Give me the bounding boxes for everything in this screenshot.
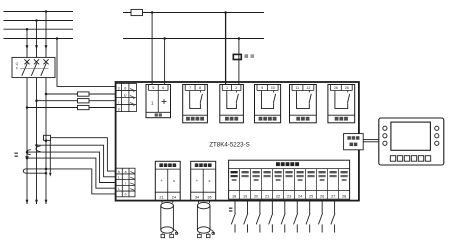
svg-text:5: 5 — [152, 86, 154, 90]
output contact K6 — [294, 201, 298, 233]
wire phase B drop — [36, 21, 38, 58]
svg-text:+: + — [160, 178, 163, 183]
arrow feeder C — [45, 200, 48, 204]
svg-text:s: s — [208, 178, 210, 183]
wire comm link — [363, 139, 379, 141]
CT hook TA3 — [27, 150, 31, 155]
svg-text:20: 20 — [254, 195, 258, 199]
svg-text:a: a — [125, 170, 127, 174]
svg-text:27: 27 — [331, 195, 335, 199]
bus line L3 — [4, 28, 74, 30]
bus line N — [4, 38, 74, 40]
relay block B6 — [328, 85, 355, 123]
bus line L1 — [4, 11, 74, 13]
wire phase C feeder — [45, 78, 47, 204]
wire drop c2 — [164, 39, 166, 85]
HMI panel — [379, 118, 444, 165]
wire w5 — [45, 168, 48, 171]
wire phase C drop — [45, 12, 47, 58]
arrow feeder A — [26, 200, 29, 204]
svg-text:L: L — [118, 176, 120, 180]
svg-text:18: 18 — [232, 195, 236, 199]
svg-text:s: s — [173, 178, 175, 183]
arrow phase C — [45, 45, 48, 49]
fuse FU4 — [131, 9, 143, 15]
svg-text:23: 23 — [287, 195, 291, 199]
svg-text:19: 19 — [243, 195, 247, 199]
control line A — [123, 12, 264, 14]
svg-text:21: 21 — [159, 196, 163, 200]
module block MA — [155, 161, 180, 200]
svg-text:3: 3 — [118, 86, 120, 90]
svg-text:10: 10 — [271, 86, 275, 90]
svg-text:+: + — [196, 178, 199, 183]
terminal grid TL — [116, 83, 137, 111]
svg-text:12: 12 — [306, 86, 310, 90]
svg-text:2: 2 — [235, 86, 237, 90]
svg-text:6: 6 — [124, 86, 126, 90]
svg-text:28: 28 — [342, 195, 346, 199]
CT loop TA4 — [23, 169, 46, 173]
wire w1 arrow lead — [49, 140, 51, 172]
svg-text:L: L — [118, 187, 120, 191]
svg-text:26: 26 — [320, 195, 324, 199]
capacitor can at x=167.1 — [161, 201, 178, 238]
output contact K1 — [231, 201, 235, 233]
wire w3 — [26, 151, 29, 154]
wire drop c1 — [151, 13, 153, 85]
arrow phase A — [26, 45, 29, 49]
output contact K7 — [306, 201, 310, 233]
capacitor can at x=203.7 — [197, 201, 214, 238]
fuse FU1 tap phase C — [46, 93, 78, 95]
svg-text:26: 26 — [334, 86, 338, 90]
CT hook TA2 — [36, 146, 41, 152]
svg-text:21: 21 — [265, 195, 269, 199]
wire drop c4 — [238, 39, 240, 85]
svg-text:b: b — [125, 193, 127, 197]
svg-text:b: b — [118, 170, 120, 174]
svg-text:34: 34 — [195, 196, 199, 200]
relay block B5 — [290, 85, 317, 123]
module block MB — [191, 161, 216, 200]
relay block B3 — [220, 85, 244, 123]
terminal strip — [229, 160, 350, 199]
wire w4 — [25, 156, 29, 160]
svg-text:9: 9 — [261, 86, 263, 90]
svg-text:26: 26 — [345, 86, 349, 90]
arrow feeder B — [35, 200, 38, 204]
wire phase A drop — [26, 29, 28, 57]
wire phase A feeder — [26, 78, 28, 204]
fuse FU3 tap phase A — [27, 107, 78, 109]
wire neutral corner — [57, 39, 116, 87]
output contact K4 — [269, 201, 273, 233]
svg-text:11: 11 — [296, 86, 300, 90]
label control — [245, 54, 249, 58]
control line B — [123, 38, 264, 40]
fuse FU5 — [233, 54, 241, 59]
svg-text:7: 7 — [189, 86, 191, 90]
label 1TA — [15, 153, 18, 155]
output contact K3 — [256, 201, 260, 233]
svg-text:36: 36 — [207, 196, 211, 200]
svg-text:1: 1 — [151, 101, 154, 106]
svg-text:ZT8K4-5223-S: ZT8K4-5223-S — [209, 142, 250, 149]
CT block TA1 — [44, 135, 51, 140]
relay block B2 — [183, 85, 208, 123]
comm module — [344, 134, 364, 150]
svg-text:U: U — [124, 93, 127, 97]
output contact K2 — [244, 201, 248, 233]
label contact — [229, 208, 233, 210]
controller box — [116, 82, 359, 201]
svg-text:F: F — [16, 67, 18, 71]
svg-text:6: 6 — [162, 86, 164, 90]
svg-text:25: 25 — [309, 195, 313, 199]
arrow phase B — [35, 45, 38, 49]
bus line L2 — [4, 20, 74, 22]
relay block B1 — [146, 85, 171, 118]
wire drop c3 — [225, 13, 227, 85]
svg-text:24: 24 — [298, 195, 302, 199]
output contact K9 — [331, 201, 335, 233]
breaker QF — [12, 57, 55, 77]
svg-text:8: 8 — [199, 86, 201, 90]
wire phase B feeder — [36, 78, 38, 204]
wire w1 — [51, 138, 116, 171]
terminal grid BL — [116, 168, 135, 197]
svg-text:Q: Q — [16, 62, 19, 66]
svg-text:24: 24 — [172, 196, 176, 200]
svg-text:3: 3 — [118, 107, 120, 111]
output contact K5 — [281, 201, 285, 233]
svg-text:1: 1 — [226, 86, 228, 90]
svg-text:22: 22 — [276, 195, 280, 199]
relay block B4 — [255, 85, 281, 123]
output contact K8 — [318, 201, 322, 233]
wire w2 — [35, 144, 38, 147]
fuse FU2 tap phase B — [37, 100, 78, 102]
